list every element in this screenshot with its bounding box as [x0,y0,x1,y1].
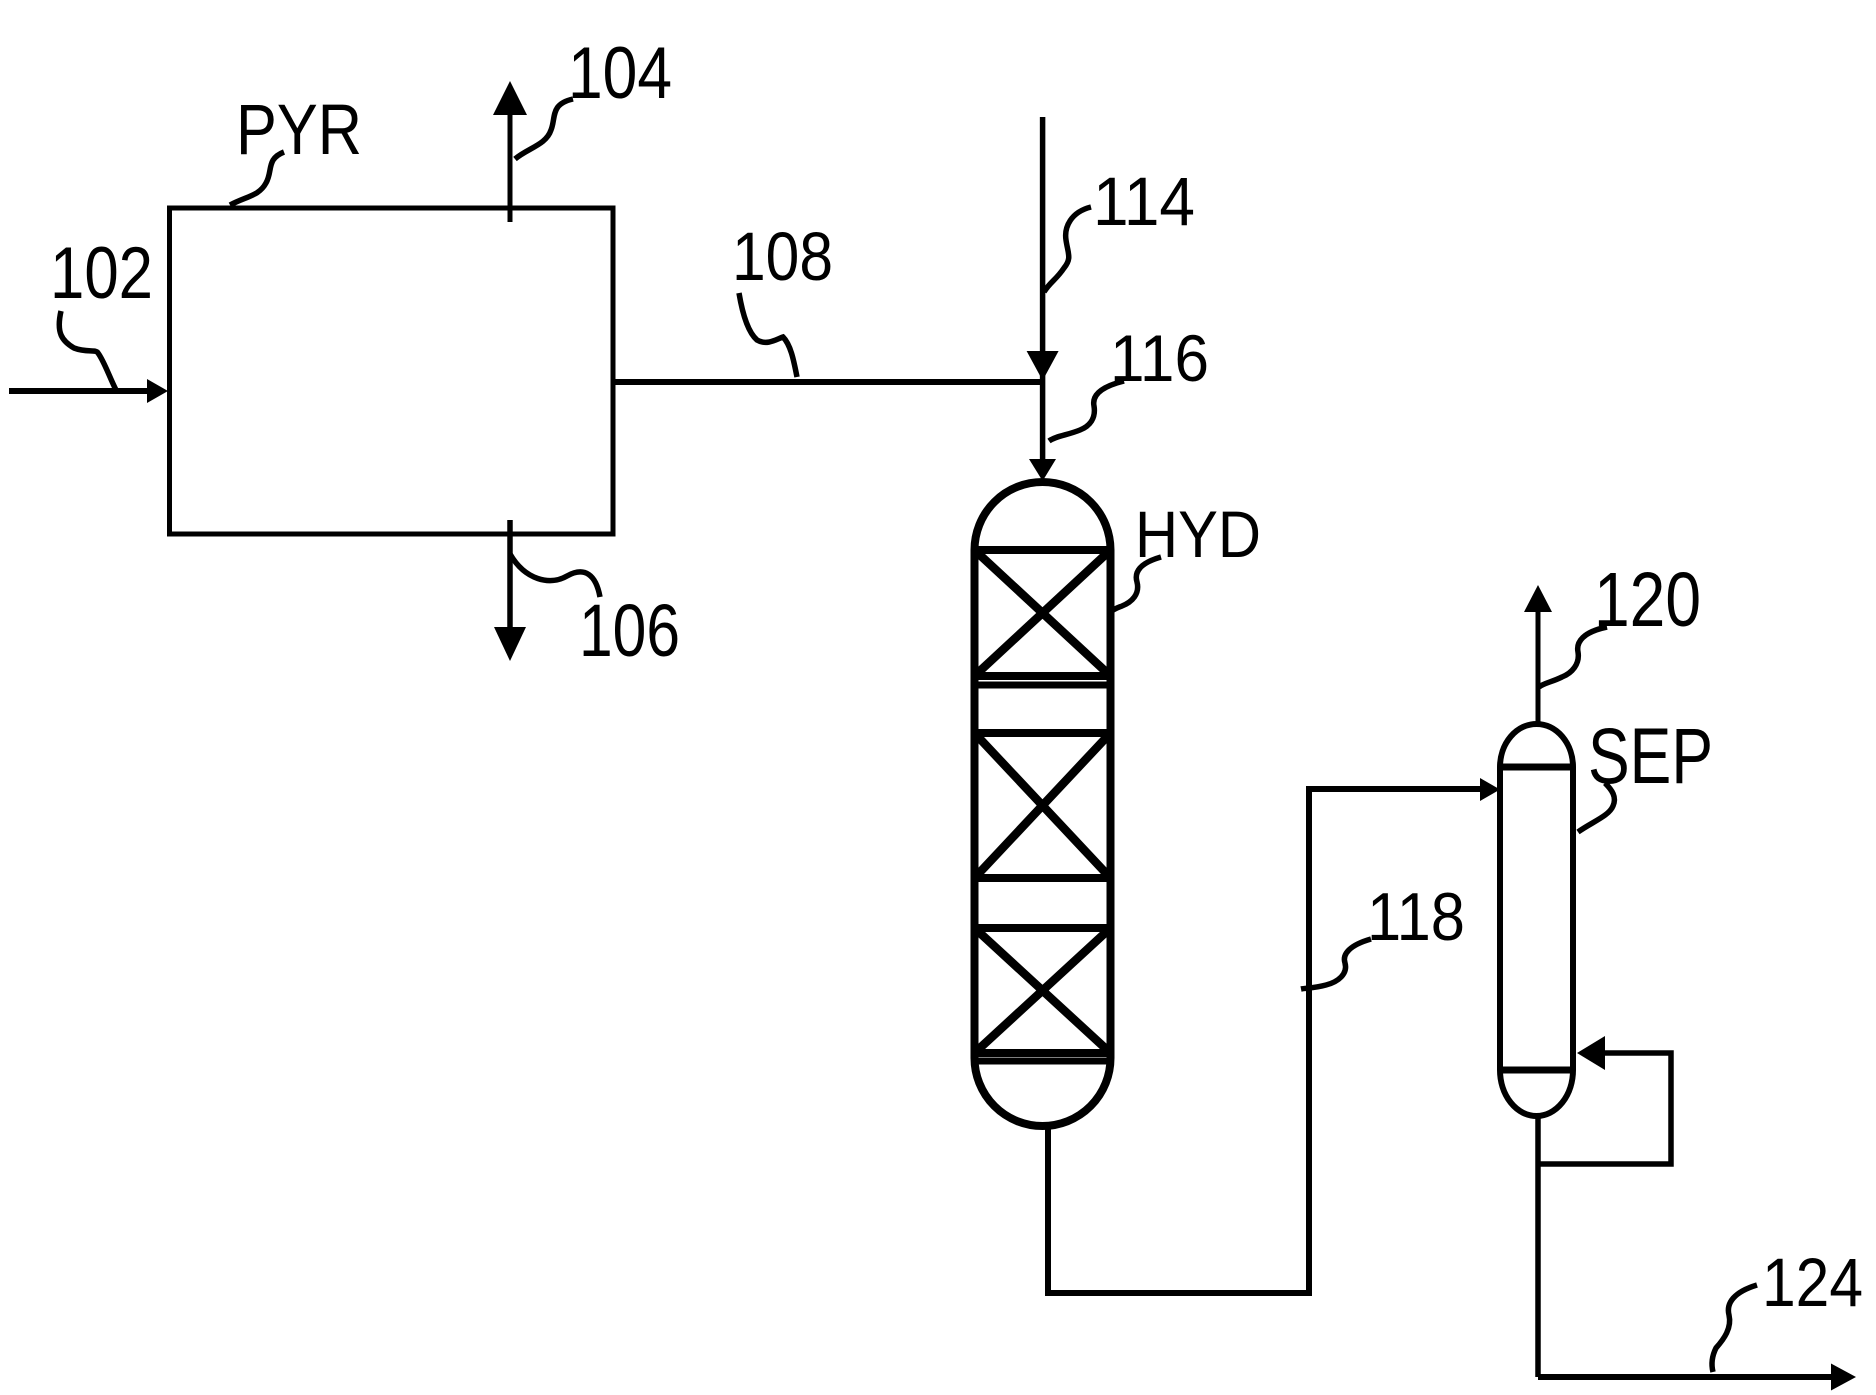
HYD bed 3 diagonal B [975,928,1111,1053]
wire stream 104 line [508,112,513,222]
arrowhead 118 into SEP [1480,778,1500,801]
wire stream 114 feed line [1040,117,1046,465]
leader squiggle 124 [1712,1285,1757,1372]
svg-text:120: 120 [1594,557,1701,643]
HYD tray line top of bed 3 [975,924,1111,932]
arrowhead 120 [1524,585,1552,612]
leader squiggle 108 [739,293,797,377]
HYD bed 1 diagonal A [975,550,1111,676]
leader squiggle 116 [1049,381,1124,441]
arrowhead 124 [1831,1364,1856,1391]
wire stream 118 path from HYD bottom [1048,789,1484,1293]
leader squiggle PYR [230,152,284,205]
HYD bed 1 diagonal B [975,550,1111,676]
wire stream 124 line [1538,1374,1832,1380]
HYD tray line top of bed 2 [975,729,1111,737]
svg-text:124: 124 [1762,1244,1863,1321]
arrowhead 102 [147,379,168,403]
HYD tray line top of bed 1 [975,546,1111,554]
leader squiggle 120 [1539,627,1607,687]
arrowhead 114 at junction [1027,351,1059,381]
wire stream 120 line [1536,610,1541,724]
wire stream 108 line [615,379,1043,385]
wire SEP bottoms line down [1535,1113,1541,1377]
vessel HYD column shell [975,482,1111,1126]
HYD bed 2 diagonal A [975,733,1111,878]
arrowhead 106 [494,627,526,661]
HYD bottom cap line [975,1058,1111,1065]
HYD tray line bottom of bed 2 [975,874,1111,882]
svg-text:108: 108 [732,218,833,295]
arrowhead recycle into SEP [1577,1036,1605,1070]
HYD tray line bottom of bed 1 [975,672,1111,680]
svg-text:104: 104 [568,33,672,114]
svg-text:106: 106 [579,589,680,672]
leader squiggle 102 [59,311,116,390]
leader squiggle 106 [510,554,600,597]
svg-text:116: 116 [1110,321,1209,395]
svg-text:102: 102 [50,233,153,314]
SEP top cap line [1500,764,1573,771]
svg-text:118: 118 [1367,879,1465,955]
svg-text:PYR: PYR [236,91,362,170]
HYD tray line below bed 1 [975,682,1111,689]
wire stream 106 line [507,520,513,630]
arrowhead 116 into HYD [1029,459,1056,481]
wire recycle loop [1538,1053,1671,1164]
reactor PYR box [170,208,614,534]
leader squiggle 118 [1301,939,1371,989]
wire stream 102 line [9,388,150,394]
svg-text:114: 114 [1093,163,1195,240]
HYD tray line bottom of bed 3 [975,1049,1111,1057]
leader squiggle SEP [1578,783,1614,832]
arrowhead 104 [493,81,527,115]
vessel SEP column shell [1500,724,1573,1116]
SEP bottom cap line [1500,1067,1573,1074]
HYD bed 2 diagonal B [975,733,1111,878]
HYD bed 3 diagonal A [975,928,1111,1053]
leader squiggle HYD [1112,557,1161,611]
leader squiggle 114 [1044,207,1091,292]
leader squiggle 104 [515,99,573,159]
